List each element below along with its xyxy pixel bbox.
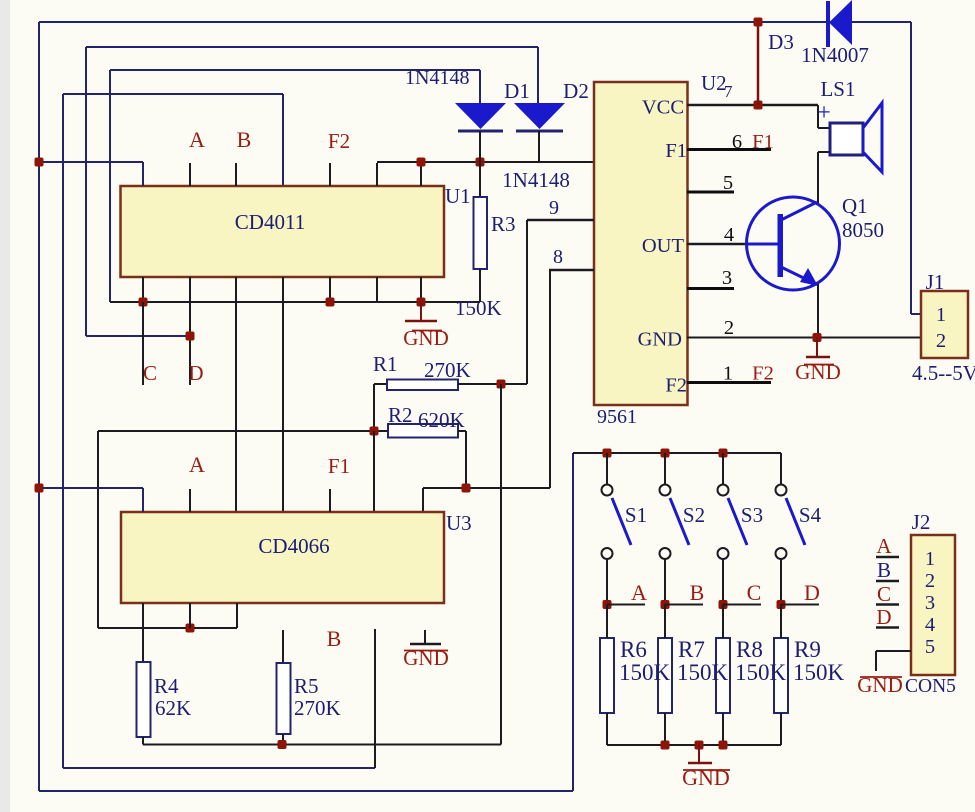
svg-text:6: 6 xyxy=(732,131,742,153)
svg-text:F1: F1 xyxy=(752,131,774,153)
svg-text:4: 4 xyxy=(724,224,734,246)
svg-text:R4: R4 xyxy=(154,674,179,698)
svg-text:9561: 9561 xyxy=(597,406,637,428)
svg-text:S2: S2 xyxy=(683,503,705,527)
svg-text:150K: 150K xyxy=(677,660,729,685)
svg-text:F2: F2 xyxy=(752,363,774,385)
svg-text:9: 9 xyxy=(549,197,559,219)
svg-text:R8: R8 xyxy=(736,637,763,662)
svg-text:R2: R2 xyxy=(388,403,413,427)
svg-text:S1: S1 xyxy=(625,503,647,527)
svg-text:1N4007: 1N4007 xyxy=(801,43,869,67)
svg-text:4.5--5V: 4.5--5V xyxy=(912,361,975,385)
svg-text:R7: R7 xyxy=(678,637,705,662)
svg-text:CD4011: CD4011 xyxy=(235,210,305,234)
svg-text:J2: J2 xyxy=(912,510,931,534)
svg-text:C: C xyxy=(877,582,891,606)
svg-text:U2: U2 xyxy=(701,71,727,95)
svg-text:4: 4 xyxy=(925,614,935,636)
svg-text:D: D xyxy=(188,361,203,385)
svg-text:F2: F2 xyxy=(328,129,350,153)
svg-text:GND: GND xyxy=(682,765,730,790)
svg-text:270K: 270K xyxy=(424,358,471,382)
svg-text:8: 8 xyxy=(553,246,563,268)
svg-text:270K: 270K xyxy=(294,696,341,720)
svg-text:3: 3 xyxy=(925,592,935,614)
svg-text:D1: D1 xyxy=(504,79,530,103)
svg-text:5: 5 xyxy=(925,636,935,658)
svg-text:A: A xyxy=(189,452,205,477)
svg-text:7: 7 xyxy=(724,82,733,101)
svg-text:S4: S4 xyxy=(799,503,822,527)
svg-text:620K: 620K xyxy=(418,408,465,432)
svg-text:A: A xyxy=(631,580,647,605)
svg-text:F1: F1 xyxy=(665,140,687,162)
svg-text:U3: U3 xyxy=(446,511,472,535)
svg-text:3: 3 xyxy=(722,267,732,289)
svg-text:S3: S3 xyxy=(741,503,763,527)
svg-text:62K: 62K xyxy=(155,696,191,720)
svg-text:CD4066: CD4066 xyxy=(258,534,329,558)
svg-text:D2: D2 xyxy=(563,79,589,103)
svg-text:1N4148: 1N4148 xyxy=(405,67,469,89)
svg-text:VCC: VCC xyxy=(642,97,684,119)
svg-text:Q1: Q1 xyxy=(842,194,868,218)
svg-text:2: 2 xyxy=(724,317,734,339)
svg-text:1: 1 xyxy=(723,363,733,385)
svg-text:CON5: CON5 xyxy=(905,676,956,697)
svg-text:U1: U1 xyxy=(445,184,471,208)
svg-text:B: B xyxy=(237,127,252,152)
svg-text:1: 1 xyxy=(925,548,935,570)
svg-text:1: 1 xyxy=(936,304,946,326)
svg-text:+: + xyxy=(817,100,831,126)
svg-text:150K: 150K xyxy=(735,660,787,685)
svg-text:A: A xyxy=(189,127,205,152)
svg-text:J1: J1 xyxy=(926,270,945,294)
svg-text:OUT: OUT xyxy=(642,235,685,257)
svg-text:R1: R1 xyxy=(373,352,398,376)
svg-text:A: A xyxy=(876,534,892,558)
svg-text:R5: R5 xyxy=(294,674,319,698)
svg-text:2: 2 xyxy=(936,330,946,352)
svg-text:LS1: LS1 xyxy=(820,77,855,101)
svg-text:2: 2 xyxy=(925,570,935,592)
svg-text:8050: 8050 xyxy=(842,218,884,242)
svg-text:C: C xyxy=(143,361,157,385)
svg-text:F1: F1 xyxy=(328,454,350,478)
svg-text:5: 5 xyxy=(723,172,733,194)
svg-text:C: C xyxy=(747,580,762,605)
svg-text:D: D xyxy=(876,605,891,629)
svg-text:150K: 150K xyxy=(619,660,671,685)
svg-text:B: B xyxy=(877,558,891,582)
svg-text:B: B xyxy=(327,626,342,651)
svg-text:D: D xyxy=(804,580,820,605)
svg-text:GND: GND xyxy=(638,329,682,351)
svg-text:R6: R6 xyxy=(620,637,647,662)
svg-text:B: B xyxy=(690,580,705,605)
svg-text:R9: R9 xyxy=(794,637,821,662)
svg-text:D3: D3 xyxy=(768,30,794,54)
svg-text:1N4148: 1N4148 xyxy=(502,168,570,192)
svg-text:F2: F2 xyxy=(665,375,687,397)
svg-text:R3: R3 xyxy=(491,212,516,236)
svg-text:150K: 150K xyxy=(793,660,845,685)
svg-text:150K: 150K xyxy=(455,296,502,320)
